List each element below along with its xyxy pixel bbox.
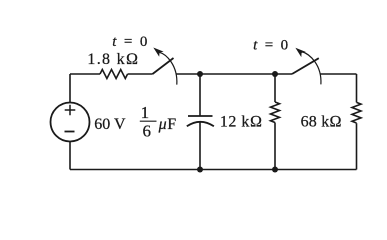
node C (bottom of capacitor branch)	[197, 167, 203, 173]
capacitor top plate	[188, 115, 213, 117]
voltage source plus sign	[65, 105, 76, 115]
svg-text:1.8 kΩ: 1.8 kΩ	[87, 51, 139, 68]
node D (bottom of 12k branch)	[272, 167, 278, 173]
wire left side lower (source bottom to bottom-left corner)	[69, 141, 71, 169]
wire node A to node B	[200, 73, 275, 75]
capacitor value fraction 1/6 uF	[140, 103, 177, 140]
wire bottom rail	[70, 169, 357, 171]
switch SW2 motion arc	[302, 52, 321, 85]
wire capacitor branch upper	[199, 74, 201, 116]
svg-text:6: 6	[143, 122, 152, 141]
switch SW1 arrowhead	[153, 48, 163, 57]
wire switch 1 contact to node A	[176, 73, 200, 75]
switch SW2 blade	[292, 58, 319, 74]
svg-text:68 kΩ: 68 kΩ	[301, 113, 342, 130]
wire 12k branch upper	[274, 74, 276, 102]
node B (top of 12k branch)	[272, 71, 278, 77]
svg-text:μF: μF	[158, 116, 177, 133]
wire right side lower (68k bottom to bottom-right corner)	[356, 123, 358, 169]
wire left side upper (top-left corner down to source top)	[69, 74, 71, 103]
wire node B to switch 2 pivot	[275, 73, 292, 75]
resistor 1.8 kOhm (horizontal zigzag)	[100, 70, 128, 79]
svg-text:t = 0: t = 0	[253, 38, 290, 54]
node A (top of capacitor branch)	[197, 71, 203, 77]
switch SW1 blade	[153, 58, 174, 74]
resistor 68 kOhm (vertical zigzag)	[352, 102, 361, 123]
wire capacitor branch lower	[199, 122, 201, 170]
wire switch 2 contact to top-right corner	[320, 73, 357, 75]
voltage source minus sign	[65, 131, 75, 133]
voltage source 60 V circle	[51, 103, 90, 142]
svg-text:1: 1	[141, 103, 150, 122]
wire 12k branch lower	[274, 123, 276, 170]
capacitor bottom curved plate	[187, 122, 214, 127]
switch SW1 motion arc	[159, 52, 177, 84]
switch SW2 arrowhead	[295, 48, 305, 57]
svg-text:60 V: 60 V	[94, 116, 126, 133]
svg-text:t = 0: t = 0	[112, 34, 149, 50]
wire resistor to switch 1 pivot	[128, 73, 153, 75]
svg-text:12 kΩ: 12 kΩ	[220, 113, 263, 130]
wire top-left segment	[70, 73, 100, 75]
resistor 12 kOhm (vertical zigzag)	[271, 102, 280, 123]
wire right side upper (top-right corner to 68k top)	[356, 74, 358, 102]
